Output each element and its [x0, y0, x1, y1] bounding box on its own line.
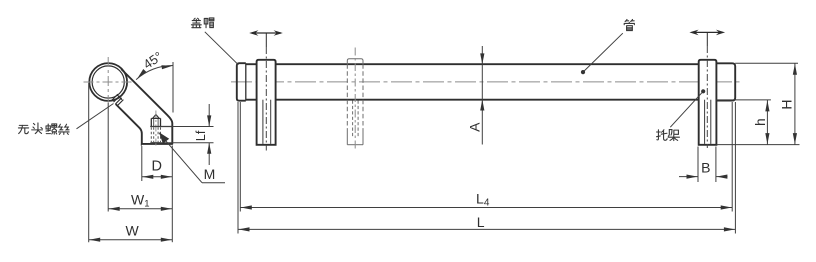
- extension lines W / W1 / D: [88, 83, 90, 242]
- L4 dimension: [240, 207, 732, 209]
- right end cap: [716, 63, 735, 100]
- right clamp hole: [704, 100, 706, 144]
- tube centerline: [231, 81, 741, 83]
- B dimension: [697, 147, 699, 183]
- 45-degree dimension: [172, 62, 174, 113]
- middle clamp centerline: [354, 48, 356, 151]
- block top face line: [150, 126, 172, 128]
- svg-text:Lf: Lf: [194, 130, 208, 141]
- svg-text:B: B: [701, 159, 710, 175]
- hidden thread lines: [150, 127, 152, 142]
- label: tube: [624, 19, 634, 30]
- leader to tube with dot: [583, 33, 623, 72]
- tube outline: [246, 63, 257, 65]
- Lf dimension: [150, 126, 213, 128]
- label: set screw: [18, 125, 28, 133]
- left end cap: [237, 63, 246, 100]
- leader to left cap: [205, 32, 239, 65]
- h dimension: [716, 99, 771, 101]
- slide arrow marker left: [252, 32, 281, 34]
- right bracket clamp: [699, 60, 717, 145]
- bracket side-view ring (pipe bore): [89, 63, 127, 101]
- leader to right clamp with dot: [670, 91, 703, 127]
- leader + label M: [159, 133, 202, 182]
- bracket side-view outline: [116, 69, 173, 144]
- A dimension: [481, 46, 483, 145]
- svg-text:A: A: [466, 122, 482, 132]
- left clamp hole: [262, 100, 264, 144]
- W1 dimension: [108, 208, 172, 210]
- svg-text:H: H: [779, 100, 795, 110]
- left bracket clamp: [257, 60, 276, 145]
- svg-text:D: D: [152, 159, 162, 175]
- label: cap (top-left): [191, 18, 201, 27]
- hole centerline: [155, 111, 157, 148]
- middle clamp (alternate position, thin): [347, 59, 363, 64]
- set screw on ring (at 4:30): [112, 94, 124, 106]
- D dimension: [142, 176, 173, 178]
- W dimension: [89, 239, 173, 241]
- tapped hole M with screw tip (side view): [151, 118, 160, 126]
- svg-text:M: M: [204, 166, 216, 182]
- L dimension: [238, 228, 735, 230]
- label: bracket: [657, 130, 668, 141]
- slide arrow marker right: [692, 31, 722, 33]
- ring centerlines: [84, 81, 134, 83]
- H dimension: [735, 62, 798, 64]
- svg-text:L: L: [477, 214, 485, 230]
- svg-text:h: h: [753, 118, 768, 126]
- L4 / L extension lines: [237, 102, 239, 234]
- middle clamp hole (hidden): [352, 101, 354, 138]
- leader to set screw: [77, 104, 114, 129]
- svg-text:W: W: [125, 222, 139, 238]
